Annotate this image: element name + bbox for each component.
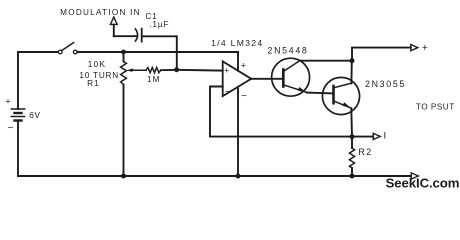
svg-text:−: − <box>241 91 247 102</box>
wire op-amp output to Q1 base <box>251 78 283 80</box>
modulation input terminal arrow <box>110 17 117 36</box>
op-amp U1 1/4 LM324 <box>223 61 252 97</box>
node pot bottom on rail <box>121 174 126 179</box>
wire Q2 emitter down to I node <box>350 108 353 136</box>
svg-text:+: + <box>422 42 428 54</box>
wire Q1 collector to + node <box>300 60 352 62</box>
svg-text:1M: 1M <box>147 75 161 84</box>
switch S1 <box>58 43 77 54</box>
svg-text:R1: R1 <box>87 79 100 88</box>
transistor Q2 2N3055 <box>322 77 359 114</box>
node signal junction (cap / 1M / op-amp +) <box>174 67 179 72</box>
svg-text:SeekIC.com: SeekIC.com <box>386 175 460 190</box>
svg-text:I: I <box>383 130 386 141</box>
svg-text:6V: 6V <box>29 111 41 120</box>
potentiometer R1 10K 10 TURN <box>121 62 127 85</box>
resistor 1M <box>146 68 161 73</box>
svg-text:+: + <box>5 97 10 107</box>
terminal arrow minus (rail right end) <box>411 173 418 179</box>
svg-text:1/4 LM324: 1/4 LM324 <box>211 38 263 48</box>
wire left rail top (battery + up to top rail) <box>18 52 58 109</box>
wire I node to R2 <box>351 137 353 148</box>
svg-text:+: + <box>224 65 229 75</box>
wire op-amp V+ supply drop <box>237 52 239 71</box>
wire pot bottom to ground rail <box>123 85 125 177</box>
wire top rail from switch to op-amp V+ corner <box>77 51 238 53</box>
node R2 bottom on rail <box>350 174 355 179</box>
node junction pot top <box>121 50 126 55</box>
wire I terminal <box>352 136 373 138</box>
svg-text:−: − <box>8 123 14 134</box>
svg-text:R2: R2 <box>358 147 372 157</box>
svg-text:−: − <box>225 87 231 98</box>
wiper arrow of R1 <box>127 68 146 72</box>
wire battery minus to ground rail <box>17 121 19 177</box>
svg-text:TO PSUT: TO PSUT <box>416 102 455 111</box>
svg-text:+: + <box>241 60 246 70</box>
node collector junction <box>350 58 355 63</box>
svg-text:2N3055: 2N3055 <box>365 79 406 89</box>
wire capacitor branch down to node <box>142 36 177 69</box>
wire Q2 collector up to + node <box>350 61 352 84</box>
terminal arrow I <box>373 133 380 139</box>
wire R2 bottom to rail <box>351 168 353 176</box>
node op-amp V- on rail <box>236 174 241 179</box>
svg-text:10K: 10K <box>88 60 106 69</box>
node emitter / feedback / I junction <box>350 134 355 139</box>
svg-text:.1µF: .1µF <box>149 20 169 29</box>
wire op-amp feedback (- input to emitter node) <box>210 87 352 137</box>
wire op-amp V- supply to rail <box>237 87 239 176</box>
battery B1 6V <box>11 109 24 121</box>
wire Q1 emitter to Q2 base <box>307 92 334 95</box>
svg-text:2N5448: 2N5448 <box>267 45 308 55</box>
svg-text:MODULATION IN: MODULATION IN <box>60 8 141 17</box>
wire pot top drop <box>123 52 125 62</box>
wire + output terminal <box>352 48 411 61</box>
transistor Q1 2N5448 <box>272 58 310 96</box>
wire bottom ground rail <box>18 175 411 177</box>
capacitor C1 .1uF <box>114 29 142 42</box>
resistor R2 <box>349 148 354 168</box>
wire node to op-amp + input <box>177 69 223 72</box>
terminal arrow plus output <box>411 45 418 51</box>
wire 1M to node <box>161 69 177 71</box>
